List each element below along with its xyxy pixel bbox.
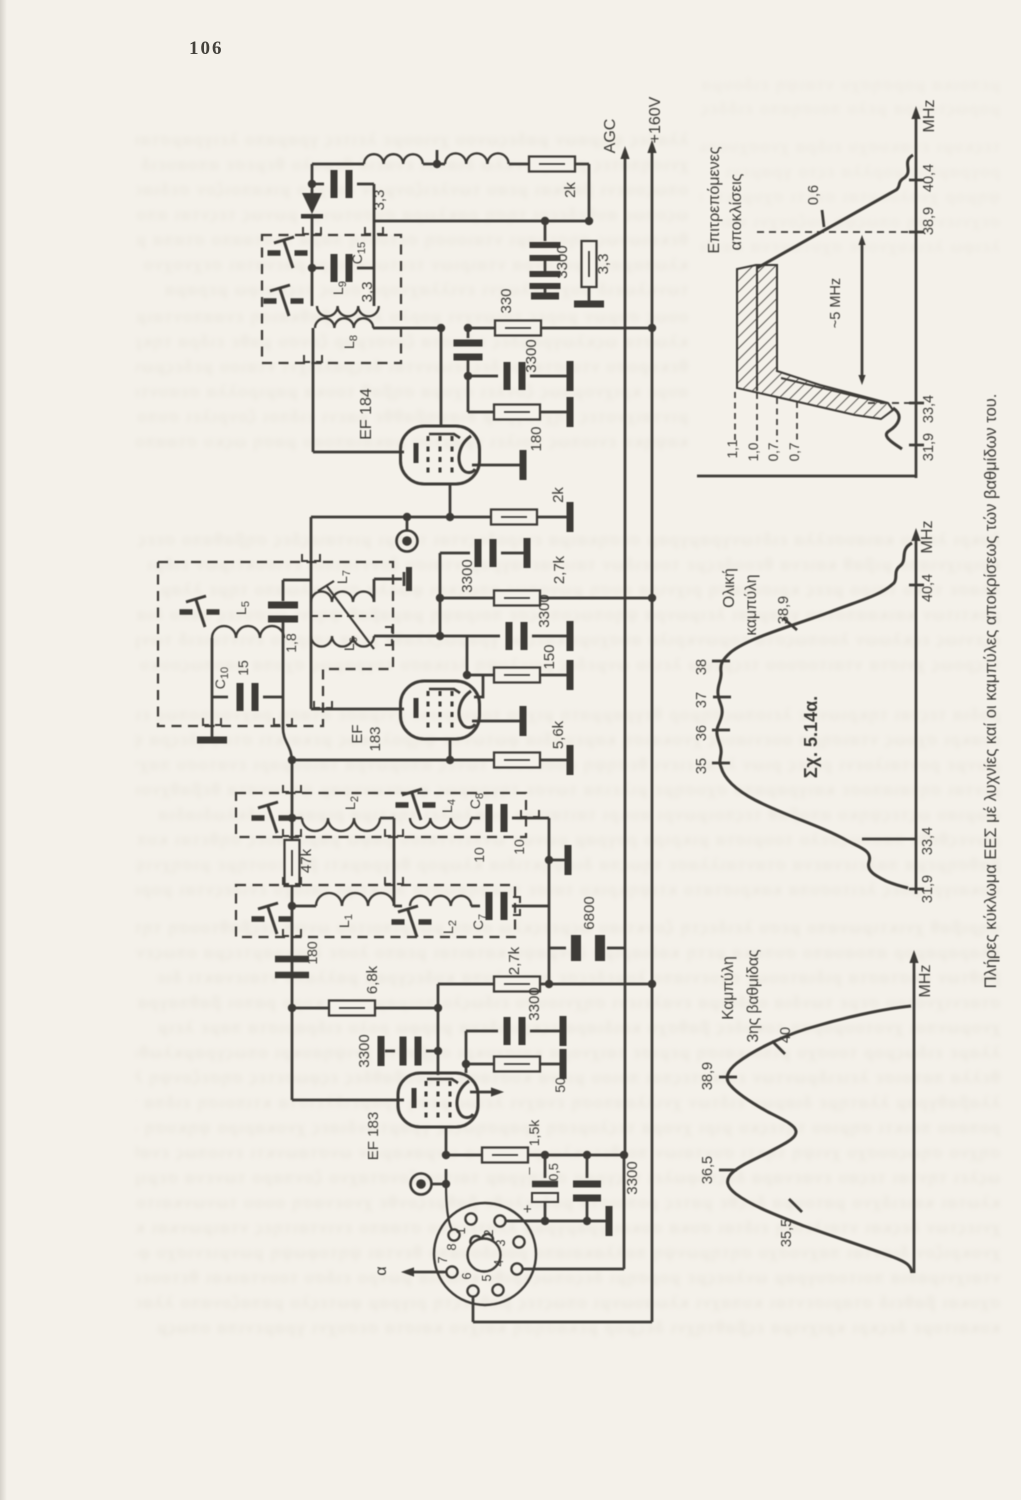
coupling capacitor at node 330-wire (464, 324, 472, 332)
svg-text:~5 MHz: ~5 MHz (828, 278, 844, 328)
trimmer L1 (252, 916, 265, 922)
resistor 180 to ground (467, 376, 470, 412)
svg-text:EF: EF (349, 724, 366, 743)
pin 8 (448, 1229, 459, 1240)
coil L6 (311, 636, 374, 647)
capacitor C7 (471, 905, 480, 908)
wire: top line down through diode (311, 164, 314, 193)
svg-text:0,6: 0,6 (806, 185, 822, 205)
svg-text:40: 40 (778, 1027, 794, 1043)
svg-text:3: 3 (494, 1239, 508, 1246)
capacitor C10 15pF (212, 696, 228, 699)
pentode EF184 (video IF output stage) (401, 426, 480, 484)
svg-text:1,0: 1,0 (746, 443, 761, 462)
svg-text:α: α (373, 1266, 390, 1275)
coil L5 (212, 626, 284, 638)
coil L1 (288, 902, 296, 910)
ground below C10 box (211, 697, 214, 737)
svg-text:36: 36 (694, 725, 710, 741)
svg-text:8: 8 (445, 1243, 459, 1250)
svg-text:+160V: +160V (647, 96, 664, 143)
screen resistor 330 to +160V (468, 327, 494, 330)
svg-text:3300: 3300 (554, 245, 571, 278)
wire: pin4 to AGC line (523, 1268, 624, 1271)
curve2 ticks+labels (909, 584, 924, 587)
tuning slug arrow through L7/L6 (326, 585, 374, 649)
node: diode top junction (308, 180, 316, 188)
curve1 ticks (909, 179, 924, 182)
svg-text:6,8k: 6,8k (364, 965, 381, 994)
svg-text:L2: L2 (342, 796, 361, 810)
svg-text:L8: L8 (341, 335, 360, 349)
svg-text:L4: L4 (439, 799, 458, 813)
curve1 dashed level 33,4 (868, 402, 910, 404)
capacitor 3300 grid bypass (586, 1155, 589, 1178)
capacitor C15 3,3 (top coupling) (312, 183, 324, 186)
svg-text:+: + (523, 1201, 532, 1218)
svg-text:1,5k: 1,5k (526, 1119, 542, 1146)
capacitor C8 (471, 817, 480, 820)
coil L2 upper (288, 814, 296, 822)
svg-text:3300: 3300 (523, 339, 540, 372)
svg-text:35,5: 35,5 (779, 1219, 795, 1247)
pin 1 (465, 1213, 476, 1224)
pin 4 (511, 1263, 522, 1274)
svg-text:31,9: 31,9 (920, 875, 936, 903)
wire: C8/C7 junction vertical (548, 818, 551, 984)
feedthrough cap at L7 output (403, 572, 406, 586)
svg-text:Ολική: Ολική (721, 568, 738, 608)
svg-text:3300: 3300 (356, 1034, 373, 1067)
pin 2 (494, 1215, 505, 1226)
svg-text:L2: L2 (440, 920, 459, 934)
ground at C8/C7 node (549, 859, 565, 862)
screen lead of stage2 (474, 675, 483, 697)
wire: vertical link stage2 anode to grid circuit (310, 517, 313, 709)
svg-text:6: 6 (460, 1272, 474, 1279)
coil L10b (top chain, second winding) (437, 163, 445, 166)
wire: EF184 side electrode to ground (472, 464, 520, 467)
electrolytic 0,5 with + (544, 1155, 547, 1178)
svg-text:0,7: 0,7 (766, 443, 781, 462)
svg-text:0,5: 0,5 (546, 1163, 561, 1181)
svg-text:36,5: 36,5 (700, 1156, 716, 1184)
node chain x=440 screen network (439, 553, 442, 636)
svg-text:150: 150 (541, 644, 558, 669)
svg-text:10: 10 (471, 847, 487, 863)
wire: right side of C15 down to bypass wire and L9 tank (373, 184, 376, 268)
trimmer of L8 (264, 298, 277, 304)
resistor 47k grid leak (283, 829, 301, 836)
capacitor 3300 screen bypass stage2 (440, 635, 500, 638)
svg-text:15: 15 (235, 660, 251, 676)
resistor 1,5k (446, 1154, 483, 1157)
svg-text:10: 10 (511, 839, 527, 855)
svg-text:L9: L9 (330, 281, 349, 295)
curve1 dashed drop lines to tolerance labels (734, 392, 736, 440)
svg-text:3300: 3300 (459, 559, 476, 592)
resistor 5,6k cathode stage2 (450, 759, 494, 762)
svg-text:35: 35 (694, 758, 710, 774)
wire: cathode stage1 down to 1,5k line (445, 1127, 448, 1155)
5MHz span arrow (861, 240, 864, 380)
svg-text:183: 183 (367, 726, 384, 751)
curve3 ticks (719, 1076, 737, 1079)
svg-text:3300: 3300 (536, 594, 553, 627)
coil L9 (311, 268, 314, 306)
svg-text:1,8: 1,8 (283, 633, 299, 653)
valve socket (bottom view) (434, 1203, 536, 1305)
svg-text:AGC: AGC (602, 119, 619, 154)
svg-text:αποκλίσεις: αποκλίσεις (728, 173, 745, 250)
shield box feedthrough marks (top) (303, 227, 321, 234)
wire: top plate-supply line from diode node to 2k (312, 163, 364, 166)
wire: screen vertical into tube1 (437, 1008, 440, 1075)
coil L4 (410, 818, 471, 828)
shield box of L1/L2 (lower) (236, 885, 515, 937)
svg-text:2k: 2k (550, 487, 567, 503)
pin 5 (492, 1284, 503, 1295)
curve2 axis MHz (915, 534, 918, 894)
svg-text:MHz: MHz (917, 965, 934, 998)
trimmer L4 (396, 802, 409, 808)
curve2 passband ticks (712, 660, 730, 663)
svg-text:33,4: 33,4 (921, 395, 937, 423)
anode arrow stage1 (470, 1091, 496, 1094)
pentode EF183 first stage (292, 1099, 404, 1102)
resistor 2k (cathode) (491, 510, 537, 525)
terminal to socket (442, 1180, 450, 1188)
curve1 response line lower squiggle (886, 408, 902, 449)
svg-text:3300: 3300 (526, 987, 543, 1020)
svg-text:47k: 47k (298, 848, 315, 873)
resistor 2,7k to +160V (440, 597, 494, 600)
svg-text:0,7: 0,7 (787, 443, 802, 462)
wire: pin2 to ground line (506, 1220, 545, 1223)
shield box of L2/L4 (upper) (236, 793, 526, 837)
svg-text:2,7k: 2,7k (551, 555, 568, 584)
capacitor 6800 to AGC line (549, 947, 566, 950)
wire: cathode line left and down grid chain (292, 759, 450, 762)
svg-text:33,4: 33,4 (920, 827, 936, 855)
curve1 axis MHz (915, 112, 918, 478)
svg-text:7: 7 (436, 1256, 450, 1263)
svg-text:4: 4 (492, 1259, 506, 1266)
pin 7 (446, 1266, 457, 1277)
svg-text:C8: C8 (467, 793, 486, 809)
svg-text:180: 180 (304, 941, 320, 965)
trimmer of L5 (180, 609, 193, 615)
svg-text:EF 183: EF 183 (365, 1112, 382, 1160)
wire: bypass node to C15 branch (374, 220, 589, 223)
svg-text:38: 38 (694, 659, 710, 675)
svg-text:Επιτρεπόμενες: Επιτρεπόμενες (706, 146, 723, 253)
svg-text:38,9: 38,9 (700, 1062, 716, 1090)
svg-text:3ης βαθμίδας: 3ης βαθμίδας (745, 950, 762, 1043)
resistor 3,3 (vertical to ground) (582, 241, 597, 287)
node on +160V rail at 330 (648, 324, 656, 332)
wire: vertical from 2k down to bypass node (588, 164, 591, 221)
wire: down into EF184 top (440, 328, 443, 427)
svg-text:L1: L1 (336, 914, 355, 928)
resistor 6,8k (292, 1007, 329, 1010)
wire: link L2-L4 windings (393, 818, 396, 906)
curve1 baseline (697, 475, 916, 478)
coil L2 lower (410, 896, 471, 906)
capacitor 3300 screen bypass stage1 with ground bar (378, 1036, 385, 1066)
svg-text:2: 2 (482, 1229, 496, 1236)
curve1 dashed level 38,9 (757, 231, 910, 233)
capacitor 1,8 coupling (283, 579, 311, 582)
trimmer L2 upper (252, 815, 265, 821)
wire: EF183-2 side to ground (472, 720, 520, 723)
ground below 3,3 resistor (574, 301, 604, 308)
curve3 double-humped response (727, 1006, 912, 1273)
tank cap 3,3 across L9 (308, 264, 316, 272)
trimmer of L9 (268, 250, 281, 256)
svg-text:3300: 3300 (624, 1161, 641, 1194)
svg-text:L7: L7 (334, 570, 353, 584)
coil L10a (top chain, first winding) (364, 154, 423, 164)
svg-text:L6: L6 (341, 637, 360, 651)
curve2 tick on slope 38,9 (783, 618, 797, 630)
detector diode D1 (302, 193, 322, 214)
curve2 overall response (717, 543, 912, 888)
pin 3 (513, 1236, 524, 1247)
svg-text:EF 184: EF 184 (358, 388, 375, 440)
svg-text:38,9: 38,9 (921, 207, 937, 235)
shield box of stage-2 coils (stepped) (158, 562, 393, 726)
svg-text:40,4: 40,4 (920, 574, 936, 602)
svg-text:180: 180 (528, 426, 545, 451)
wire: stage output line y517 (311, 516, 490, 519)
svg-text:330: 330 (498, 288, 515, 313)
svg-text:Πλήρες κύκλωμα ΕΕΣ μέ λυχνίες: Πλήρες κύκλωμα ΕΕΣ μέ λυχνίες καί οι καμ… (982, 394, 1000, 989)
wire: pin6 to +160V rail (472, 1297, 475, 1322)
pentode EF183 second stage (311, 708, 404, 711)
svg-text:3,3: 3,3 (595, 254, 612, 275)
capacitor 180 in grid chain (283, 929, 301, 936)
svg-text:L5: L5 (233, 601, 252, 615)
svg-text:καμπύλη: καμπύλη (743, 575, 760, 636)
wire: EF184 cathode down to 2k node (449, 484, 452, 517)
trimmer L2 lower (392, 919, 405, 925)
shield box of L9/L8 transformer (262, 235, 401, 363)
capacitor 3300 (screen bypass) (464, 372, 472, 380)
node: L8 output to EF184 anode line (437, 324, 445, 332)
svg-text:6800: 6800 (581, 896, 598, 929)
svg-text:C10: C10 (212, 667, 231, 689)
wire: L8 left end down to EF184 grid (312, 328, 315, 452)
svg-text:MHz: MHz (919, 521, 936, 554)
svg-text:MHz: MHz (921, 100, 938, 133)
node 6,8k (288, 1004, 296, 1012)
svg-text:40,4: 40,4 (921, 164, 937, 192)
svg-text:C7: C7 (470, 914, 489, 930)
svg-text:50: 50 (552, 1077, 568, 1093)
svg-text:Σχ. 5.14α.: Σχ. 5.14α. (801, 696, 821, 778)
node: center tap of top coils (433, 160, 441, 168)
capacitor 3300 + resistor 50 cathode stage1 (465, 1031, 468, 1073)
svg-text:2,7k: 2,7k (506, 946, 523, 975)
capacitor 3300 anode bypass (440, 552, 470, 555)
resistor 150 screen feed (466, 636, 469, 675)
curve1 permitted-deviation mask (hatched) (737, 265, 893, 419)
svg-text:5: 5 (480, 1274, 494, 1281)
wire: grid chain vertical through shield (282, 697, 285, 728)
svg-text:Καμπύλη: Καμπύλη (720, 956, 737, 1020)
svg-text:–: – (521, 1167, 536, 1175)
svg-text:2k: 2k (562, 182, 579, 198)
+160V rail (651, 147, 654, 1322)
svg-text:37: 37 (694, 692, 710, 708)
wire: EF183-2 cathode to 5,6k (449, 738, 452, 760)
svg-text:1,1: 1,1 (725, 440, 740, 459)
socket center key (468, 1239, 501, 1272)
test terminal (video output) (403, 513, 411, 521)
curve3 axis MHz (913, 956, 916, 1273)
resistor 2k (top, to AGC node) (529, 157, 575, 172)
svg-text:38,9: 38,9 (776, 596, 792, 624)
dashed partition between L7 and L6 (311, 615, 374, 617)
AGC rail (624, 153, 627, 1155)
resistor 2,7k screen stage1 (437, 984, 440, 1008)
node junction at 2k / 3,3 resistor (585, 217, 593, 225)
capacitor 3300 stack to ground (544, 221, 547, 241)
wire: L5 left down (211, 638, 214, 697)
curve1 response line upper (757, 155, 913, 268)
svg-text:31,9: 31,9 (921, 433, 937, 461)
svg-text:5,6k: 5,6k (550, 720, 567, 749)
pin 6 (467, 1285, 478, 1296)
coil L7 (311, 592, 374, 603)
wire: terminal node down to socket pin 8 (446, 1184, 452, 1230)
alpha input arrow at pin7 (413, 1271, 446, 1274)
coil L8 (secondary) (315, 318, 373, 328)
